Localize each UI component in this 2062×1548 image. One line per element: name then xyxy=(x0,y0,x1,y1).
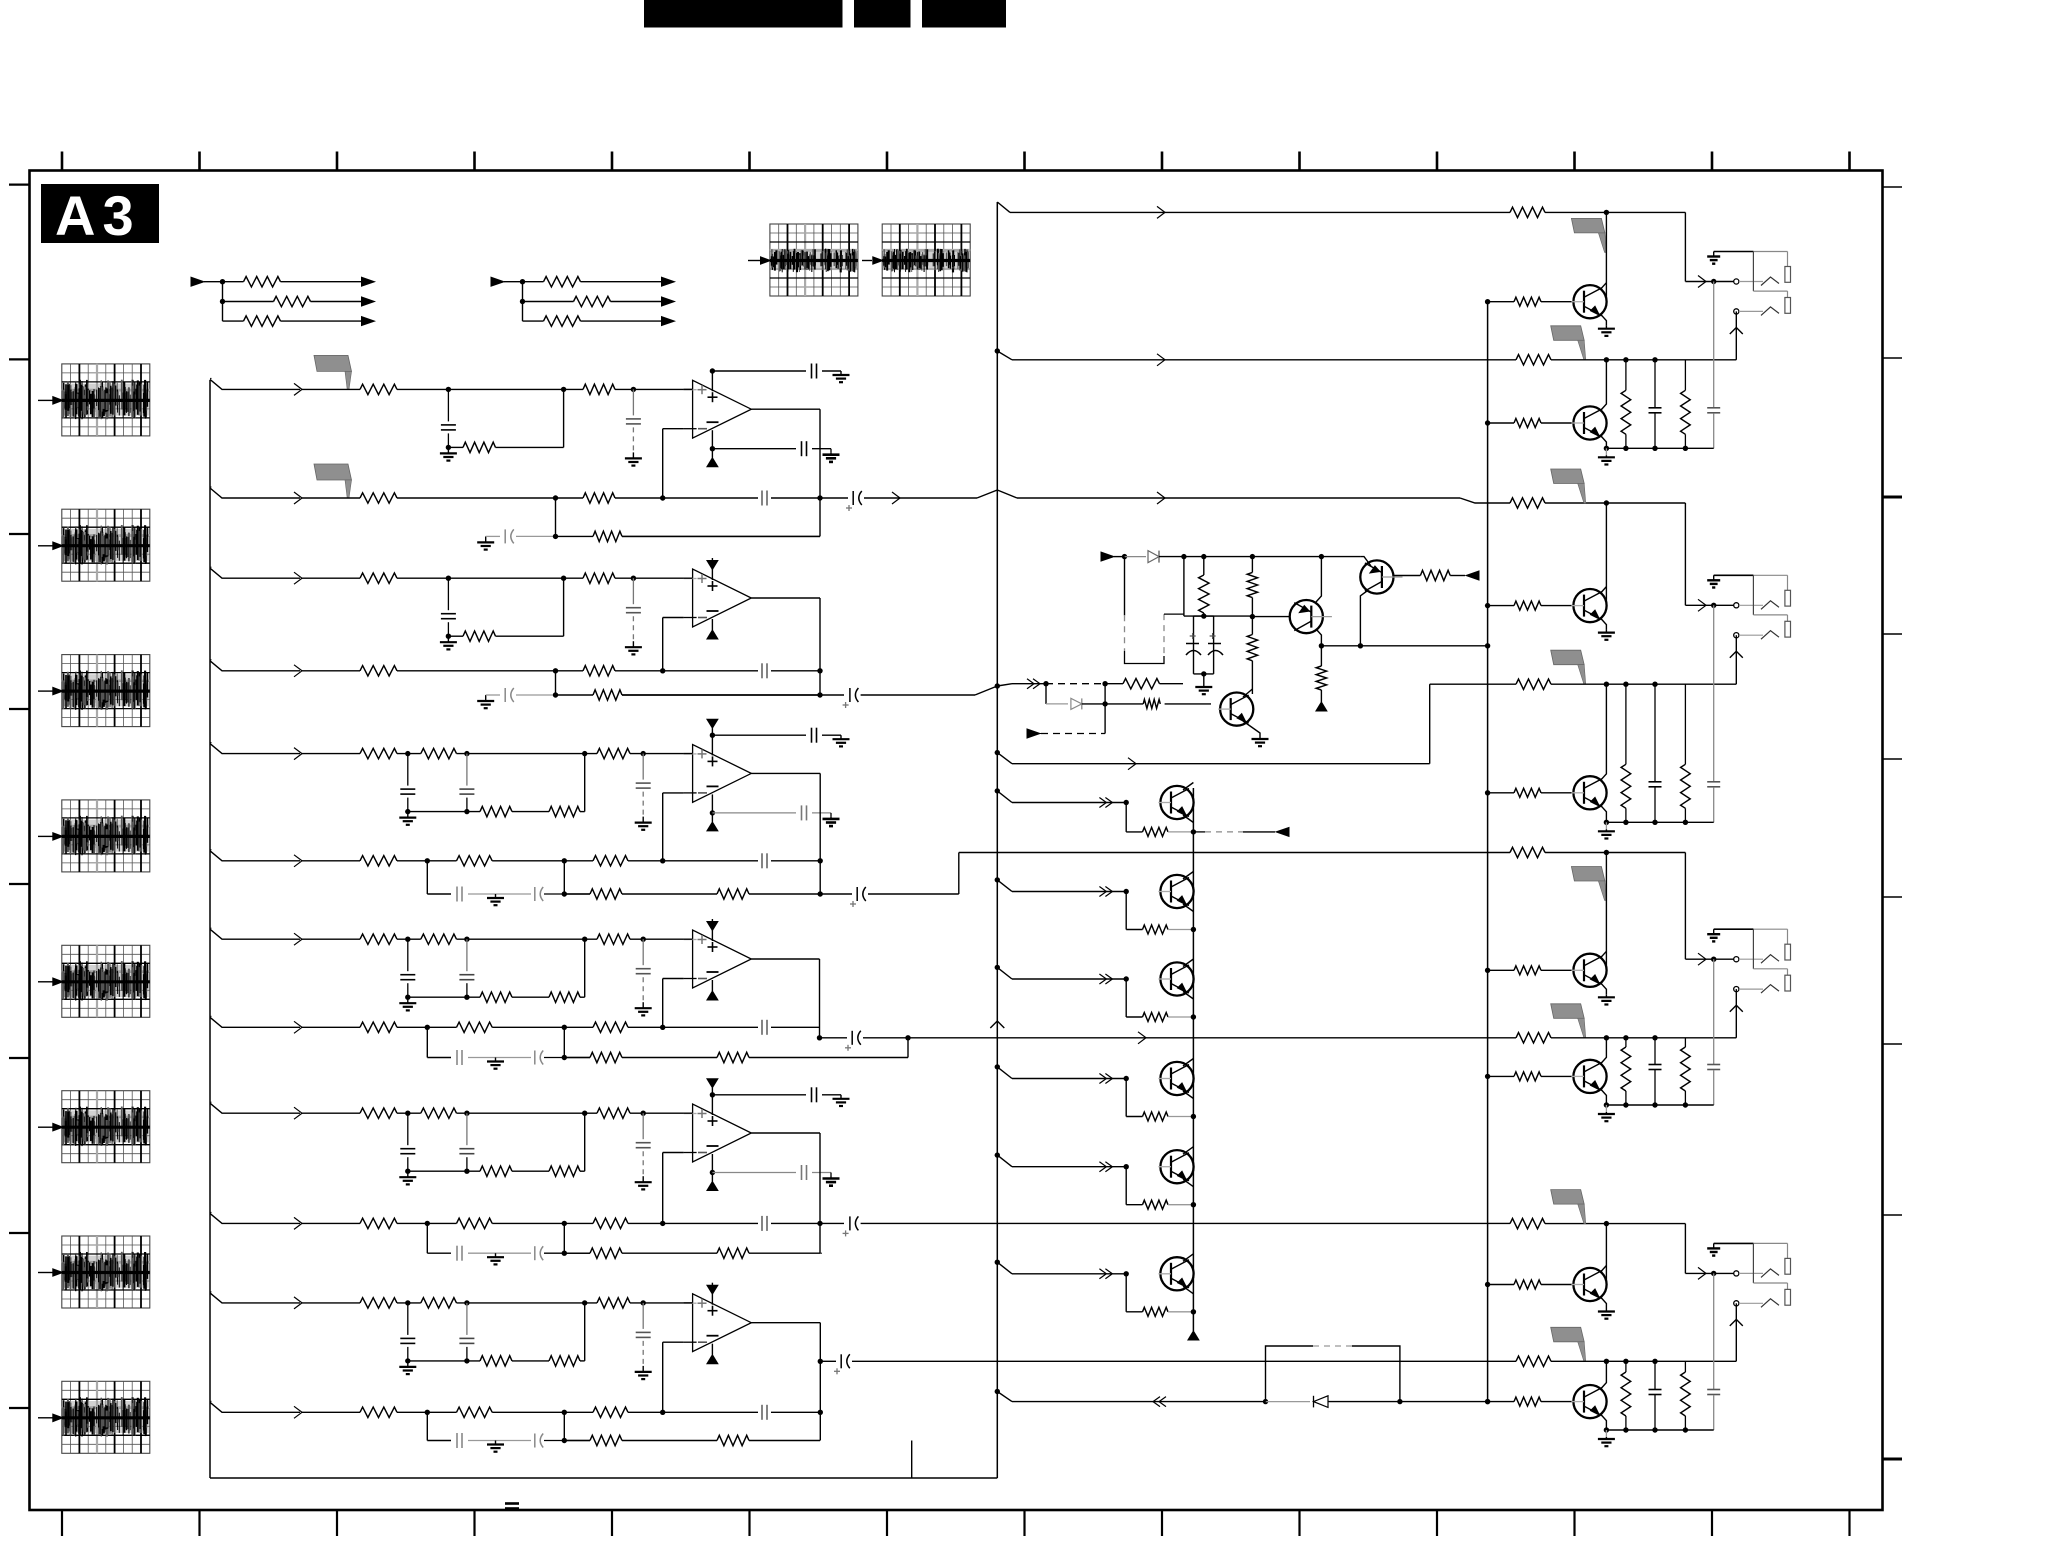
wire BL4 Qb emitter xyxy=(1601,1415,1606,1430)
wire CL drop 1046 xyxy=(1045,684,1047,704)
capacitor C3p1 xyxy=(811,728,813,743)
ground ST2d xyxy=(632,641,634,647)
flag marker BL2-Fa xyxy=(1551,469,1585,484)
junction ST5H xyxy=(562,1251,567,1256)
wire ST3A to op xyxy=(630,753,693,755)
ground Q9 xyxy=(1259,736,1261,739)
ground BL1 bottom xyxy=(1605,448,1607,455)
wire Q9 emitter xyxy=(1243,721,1260,736)
wire ST1C s2 xyxy=(622,535,820,537)
wire ST5 out row2 xyxy=(861,1222,1510,1224)
capacitor C5g1 xyxy=(456,1246,458,1261)
resistor BL3-RL1 vertical xyxy=(1625,1038,1627,1047)
transistor Q2 xyxy=(1160,875,1193,908)
wire BL2 Qb stub xyxy=(1541,792,1573,794)
junction ST3H xyxy=(562,891,567,896)
wire op5 bot row2 xyxy=(812,1172,831,1174)
wire fan vertical GRP2 xyxy=(522,282,524,321)
resistor R61 xyxy=(360,1298,397,1308)
wire BL4 Qb stub xyxy=(1541,1401,1573,1403)
ground ST5a xyxy=(407,1171,409,1177)
flow chevron ST2A xyxy=(294,572,302,584)
capacitor C1out polarized xyxy=(852,491,854,505)
flow chevron ST2B xyxy=(294,665,302,677)
capacitor C1f xyxy=(761,491,763,506)
wire ST1C s1 xyxy=(556,535,594,537)
resistor R51 xyxy=(360,1108,397,1118)
resistor BL2-Rbb xyxy=(1514,788,1541,797)
border ticks right xyxy=(1883,187,1903,1459)
bus tap Q1 xyxy=(995,788,1000,793)
transistor Q8 xyxy=(1360,560,1393,593)
wire BL1 Qb collector xyxy=(1601,360,1606,410)
wire ST5 bdownH xyxy=(563,1223,565,1253)
wire Q6 base drop xyxy=(1125,1274,1127,1312)
wire branch from bus ST2 row B xyxy=(210,659,212,661)
dashed drop CL2 xyxy=(1163,614,1165,656)
wire bottom return row xyxy=(1012,1401,1266,1403)
op-amp U6 xyxy=(693,1294,752,1352)
capacitor C3g1 xyxy=(456,887,458,902)
wire op1 bot row2 xyxy=(812,448,831,450)
wire ST5 sub1 xyxy=(408,1170,480,1172)
input arrow IN4 xyxy=(38,835,53,837)
resistor R36b xyxy=(717,889,749,899)
wire ST1A lead xyxy=(302,388,360,390)
wire BL4 Qa collector xyxy=(1601,1266,1606,1283)
V- arrow op5 xyxy=(707,1182,718,1191)
resistor BL4-RL2 vertical xyxy=(1684,1361,1686,1372)
bus tap Q5 xyxy=(995,1152,1000,1157)
resistor R-CL6 xyxy=(1123,679,1160,689)
waveform scope graphic TP1 xyxy=(770,224,858,296)
junction ST6H xyxy=(562,1438,567,1443)
resistor R45 xyxy=(593,1022,628,1032)
waveform scope graphic IN2 xyxy=(62,509,150,581)
wire ST4C s3 xyxy=(622,1057,717,1059)
flow chevron ST6A xyxy=(294,1297,302,1309)
wire row block2 r2 lower xyxy=(1012,763,1430,765)
wire BL3 Qb base xyxy=(1488,1075,1514,1077)
wire ST3B s2 xyxy=(492,860,593,862)
transistor Q5 xyxy=(1160,1150,1193,1183)
ground symbol double-bar xyxy=(505,1502,519,1505)
jack BL4 socket 1 xyxy=(1734,1271,1739,1276)
wire ST4 sub3 xyxy=(580,996,585,998)
transistor Q9 xyxy=(1220,693,1253,726)
wire ST5A seg1 xyxy=(397,1112,421,1114)
jack BL1 tip contact xyxy=(1739,281,1763,283)
wire ST3C s4 xyxy=(749,893,820,895)
ground op1p2 xyxy=(830,453,832,455)
wire ST4 sub2 xyxy=(512,996,549,998)
arrow into TP2 xyxy=(862,260,872,262)
resistor R51b xyxy=(421,1108,457,1118)
wire Q6 collector xyxy=(1183,1254,1193,1262)
V+ arrow op6 xyxy=(707,1285,718,1294)
capacitor BL4-CL1 vertical xyxy=(1654,1361,1656,1389)
capacitor C2a xyxy=(447,578,449,610)
resistor fan GRP2.2 xyxy=(574,296,611,306)
capacitor C2out polarized xyxy=(849,688,851,702)
wire ST2B2 xyxy=(615,670,758,672)
wire ST4B s1 xyxy=(397,1026,457,1028)
wire ST3A seg2 xyxy=(457,753,598,755)
flag marker BL1-Fa xyxy=(1571,218,1605,233)
wire BL2 Qa base xyxy=(1488,605,1514,607)
flag marker BL1-Fb xyxy=(1551,326,1585,341)
wire ST1 inv jog xyxy=(662,429,664,498)
capacitor C5out polarized xyxy=(849,1216,851,1230)
jack BL3 gnd row xyxy=(1714,928,1754,930)
wire BL1 Qb emitter xyxy=(1601,436,1606,448)
wire ST5B s1 xyxy=(397,1222,457,1224)
wire BL1 r1 xyxy=(1545,211,1685,213)
resistor R33b xyxy=(549,806,580,816)
wire ST2B xyxy=(397,670,583,672)
wire ST5B s2 xyxy=(492,1222,593,1224)
resistor R25 xyxy=(583,666,615,676)
resistor R61b xyxy=(421,1298,457,1308)
wire ST3A seg1 xyxy=(397,753,421,755)
op-amp U2 xyxy=(693,569,752,627)
wire ST3C s1 xyxy=(468,893,531,895)
wire ST6B s4 xyxy=(771,1411,820,1413)
ground op5p1 xyxy=(840,1095,842,1099)
resistor R46b xyxy=(717,1052,749,1062)
ground op5p2 xyxy=(830,1177,832,1179)
jack BL1 sleeve drop xyxy=(1787,252,1789,267)
jack BL3 socket 2 xyxy=(1734,987,1739,992)
resistor BL2-R2 xyxy=(1516,679,1551,689)
jack BL2 bracket 1 xyxy=(1785,590,1791,606)
resistor R44b xyxy=(457,1022,493,1032)
wire BL3 r1 xyxy=(1545,852,1685,854)
ground BL1 Qa xyxy=(1605,326,1607,329)
wire op1 +in xyxy=(684,388,693,390)
jack BL3 tip contact xyxy=(1739,958,1763,960)
jack BL1 socket 1 xyxy=(1734,279,1739,284)
capacitor BL3-CL2 vertical xyxy=(1713,959,1715,1064)
junction ST1C xyxy=(553,534,558,539)
waveform scope graphic IN1 xyxy=(62,364,150,436)
wire BL1 r1 corner drop xyxy=(1684,212,1686,281)
wire fan vertical GRP1 xyxy=(222,282,224,321)
junction ST2C xyxy=(553,692,558,697)
transistor BL3-Qa xyxy=(1573,954,1606,987)
capacitor C6g1 xyxy=(456,1433,458,1448)
wire ST6 rowC end xyxy=(622,1440,820,1442)
wire BL2 r1 corner drop xyxy=(1684,503,1686,605)
capacitor BL3-CL1 vertical xyxy=(1654,1038,1656,1064)
wire ST5B s3 xyxy=(628,1222,758,1224)
border ticks top xyxy=(62,152,1850,171)
flow chevron ST1B xyxy=(294,492,302,504)
ground BL2 bottom xyxy=(1605,822,1607,829)
jack BL3 ground xyxy=(1713,929,1715,934)
ground ST5cg xyxy=(495,1253,497,1257)
wire BL3 Qa base xyxy=(1488,969,1514,971)
capacitor C4g2 xyxy=(534,1051,536,1065)
wire Q1 collector xyxy=(1183,783,1193,791)
wire Q4 base drop xyxy=(1125,1079,1127,1117)
wire ST6C s4 xyxy=(749,1440,820,1442)
input arrow IN5 xyxy=(38,981,53,983)
V+ arrow op2 xyxy=(707,561,718,570)
wire row block1 r1 xyxy=(1010,211,1510,213)
wire ST2C s1 xyxy=(556,694,594,696)
resistor R66 xyxy=(590,1435,622,1445)
resistor BL3-Rba xyxy=(1514,966,1541,975)
resistor R35 xyxy=(593,856,628,866)
wire op5 top row xyxy=(712,1094,806,1096)
wire BL4 r1 xyxy=(1545,1223,1685,1225)
wire CL lower left xyxy=(1125,651,1165,664)
input source arrow GRP1 xyxy=(191,277,204,286)
resistor R63b xyxy=(549,1356,580,1366)
jack BL1 tip wire xyxy=(1698,276,1706,288)
capacitor C5f xyxy=(761,1216,763,1231)
ground ST3a xyxy=(407,812,409,818)
wire ST6B s2 xyxy=(492,1411,593,1413)
capacitor BL2-CL2 vertical xyxy=(1713,605,1715,781)
wire BL1 Qa emitter xyxy=(1601,315,1606,326)
input arrow IN2 xyxy=(38,545,53,547)
bus tap Q4 xyxy=(995,1064,1000,1069)
resistor Rq4 xyxy=(1126,1116,1142,1118)
capacitor BL1-CL2 vertical xyxy=(1713,282,1715,408)
capacitor C2g xyxy=(486,694,500,696)
wire ST6 sub2 xyxy=(512,1360,549,1362)
flag marker F1 xyxy=(314,355,352,371)
ground BL4 bottom xyxy=(1605,1430,1607,1437)
resistor Rq2 xyxy=(1126,929,1142,931)
feedback row C wires to output vertical xyxy=(622,535,820,537)
wire branch from bus ST5 row A xyxy=(210,1101,212,1103)
op5 top power junction xyxy=(710,1092,715,1097)
title block redaction bar 2 xyxy=(854,0,911,28)
wire op5 +in xyxy=(684,1112,693,1114)
wire ST2C s2 xyxy=(622,694,820,696)
wire BL3 Qa stub xyxy=(1541,969,1573,971)
wire ST5 sub3 xyxy=(580,1170,585,1172)
ground ST2a xyxy=(447,636,449,642)
resistor R34 xyxy=(360,856,397,866)
V+ arrow op4 xyxy=(707,922,718,931)
jack BL3 socket 1 xyxy=(1734,957,1739,962)
wire ST6A to op xyxy=(630,1302,693,1304)
wire ST5C s1 xyxy=(468,1252,531,1254)
wire ST6 inv jog xyxy=(662,1342,664,1412)
wire Q7 base row xyxy=(1252,616,1289,618)
capacitor C6out polarized xyxy=(840,1354,842,1368)
transistor Q1 xyxy=(1160,786,1193,819)
capacitor C6d xyxy=(642,1303,644,1329)
wire op4 +in xyxy=(684,938,693,940)
wire Q5 collector xyxy=(1183,1147,1193,1155)
capacitor C1p2 xyxy=(801,441,803,456)
wire BL1 r2 xyxy=(1551,359,1736,361)
diode D2 xyxy=(1046,703,1068,705)
wire GRP1 branch 3 xyxy=(223,320,244,322)
wire CL mid horizontal xyxy=(1184,615,1253,617)
op1 bottom power junction xyxy=(711,430,713,458)
resistor R24 xyxy=(360,666,397,676)
resistor R21 xyxy=(360,573,397,583)
wire ST2A mid2 xyxy=(564,577,583,579)
wire Q5 emitter xyxy=(1183,1179,1193,1187)
jack BL4 ring contact xyxy=(1739,1302,1763,1304)
resistor BL3-Rbb xyxy=(1514,1072,1541,1081)
wire branch from bus ST4 row A xyxy=(210,927,212,929)
wire ST5 sub2 xyxy=(512,1170,549,1172)
wire op5 top row2 xyxy=(822,1094,841,1096)
wire ST1B lead xyxy=(302,497,360,499)
capacitor C4a xyxy=(407,939,409,971)
junctions ST3 sub xyxy=(405,809,410,814)
resistor BL4-R1 xyxy=(1510,1218,1545,1228)
resistor R43 xyxy=(480,992,512,1002)
capacitor BL4-CL2 vertical xyxy=(1713,1273,1715,1389)
wire op6 +in xyxy=(684,1302,693,1304)
resistor BL4-R2 xyxy=(1516,1356,1551,1366)
resistor fan GRP2.1 xyxy=(544,277,581,287)
bus tap T2 xyxy=(995,348,1000,353)
wire op1 top row xyxy=(712,370,806,372)
V+ arrow op3 xyxy=(707,719,718,728)
op5 bottom power junction xyxy=(711,1154,713,1182)
wire BL2 r1 xyxy=(1545,502,1685,504)
transistor BL1-Qa xyxy=(1573,285,1606,318)
wire ST5 inv jog xyxy=(662,1153,664,1224)
input source arrow GRP2 xyxy=(491,277,504,286)
flow chevron ST4B xyxy=(294,1021,302,1033)
wire Q5 base drop xyxy=(1125,1167,1127,1205)
input arrow IN8 xyxy=(38,1417,53,1419)
capacitor C2f xyxy=(761,663,763,678)
wire ST4B s2 xyxy=(492,1026,593,1028)
wire ST5 output xyxy=(751,1132,820,1134)
wire Q8 collector down xyxy=(1360,591,1367,646)
op3 bottom power junction xyxy=(711,794,713,822)
wire ST6 out row xyxy=(820,1360,836,1362)
wire op1 bot row xyxy=(712,448,796,450)
wire ST3B s1 xyxy=(397,860,457,862)
jack BL4 gnd row xyxy=(1714,1242,1754,1244)
wire ST6A lead xyxy=(302,1302,360,1304)
resistor BL1-R1 xyxy=(1510,207,1545,217)
wire ST4 out row xyxy=(820,1037,848,1039)
resistor R23 xyxy=(463,631,496,641)
resistor R12 xyxy=(583,384,615,394)
wire BL2 Qb collector xyxy=(1601,684,1606,780)
waveform scope graphic TP2 xyxy=(882,224,970,296)
capacitor C1p1 xyxy=(811,364,813,379)
jack BL4 link xyxy=(1752,1243,1754,1283)
row CL 684 xyxy=(997,684,1012,686)
wire op1 top row2 xyxy=(822,370,841,372)
resistor BL3-R1 xyxy=(1510,847,1545,857)
jack BL2 tip contact xyxy=(1739,604,1763,606)
wire Q2 base drop xyxy=(1125,892,1127,930)
junctions ST4 sub xyxy=(405,995,410,1000)
flag marker BL3-Fa xyxy=(1571,867,1605,882)
resistor BL3-RL2 vertical xyxy=(1684,1038,1686,1047)
capacitor C1a xyxy=(447,389,449,421)
wire op4 vplus xyxy=(711,930,713,941)
jack BL1 link xyxy=(1752,252,1754,292)
resistor BL4-Rba xyxy=(1514,1280,1541,1289)
wire ST3 jog to right xyxy=(868,893,959,895)
resistor R42 xyxy=(597,934,630,944)
ground ST2c xyxy=(485,695,487,701)
junction node GRP1 xyxy=(220,279,225,284)
wire ST6 extra vertical xyxy=(911,1441,913,1479)
right feed bus xyxy=(1487,302,1489,1402)
wire ST5C s4 xyxy=(749,1252,820,1254)
wire ST1B2 xyxy=(615,497,758,499)
resistor R54b xyxy=(457,1218,493,1228)
wire ST6 out row2 xyxy=(852,1360,1516,1362)
border ticks bottom xyxy=(62,1510,1850,1536)
wire BL4 r2 xyxy=(1551,1360,1736,1362)
wire ST3 output xyxy=(751,772,820,774)
op-amp U4 xyxy=(693,930,752,988)
wire ST4A to op xyxy=(630,938,693,940)
wire BL3 r2 riser xyxy=(1735,989,1737,1038)
flow chevron ST4A xyxy=(294,933,302,945)
jack BL1 ring contact xyxy=(1739,310,1763,312)
jack BL2 link xyxy=(1752,575,1754,615)
resistor R-CL2 vertical xyxy=(1320,646,1322,666)
wire op3 top row2 xyxy=(822,734,841,736)
svg-text:A3: A3 xyxy=(55,184,141,247)
resistor R64 xyxy=(360,1407,397,1417)
schematic border frame xyxy=(30,171,1883,1511)
capacitor C3p2 xyxy=(801,805,803,820)
wire BL4 r2 riser xyxy=(1735,1303,1737,1361)
wire ST1B s4 xyxy=(771,497,820,499)
wire BL2 Qa emitter xyxy=(1601,619,1606,630)
resistor BL4-RL1 vertical xyxy=(1625,1361,1627,1372)
wire ST5 bdownG xyxy=(426,1223,428,1253)
wire BL2 r1 drop to Qa xyxy=(1605,503,1607,604)
jack BL2 ring contact xyxy=(1739,634,1763,636)
resistor R-CL7 xyxy=(1143,699,1160,708)
resistor R56b xyxy=(717,1248,749,1258)
jack BL2 bracket 2 xyxy=(1785,621,1791,637)
resistor R15 xyxy=(583,493,615,503)
wire ST5C s3 xyxy=(622,1252,717,1254)
wire ST2A mid xyxy=(397,577,564,579)
wire ST1A mid2 xyxy=(564,388,583,390)
wire ST3C s0 xyxy=(427,893,451,895)
jack BL4 bracket 1 xyxy=(1785,1258,1791,1274)
ground ST6cg xyxy=(495,1441,497,1445)
transistor BL4-Qb xyxy=(1573,1385,1606,1418)
input arrow IN1 xyxy=(38,399,53,401)
junction ST2 sub xyxy=(446,634,451,639)
resistor R34b xyxy=(457,856,493,866)
wire ST3C s3 xyxy=(622,893,717,895)
wire ST1 sub xyxy=(448,446,463,448)
resistor R41b xyxy=(421,934,457,944)
wire ST3A lead xyxy=(302,753,360,755)
transistor BL4-Qa xyxy=(1573,1268,1606,1301)
wire ST3 bdownH xyxy=(563,861,565,894)
wire ST4C s1 xyxy=(468,1057,531,1059)
waveform scope graphic IN4 xyxy=(62,800,150,872)
